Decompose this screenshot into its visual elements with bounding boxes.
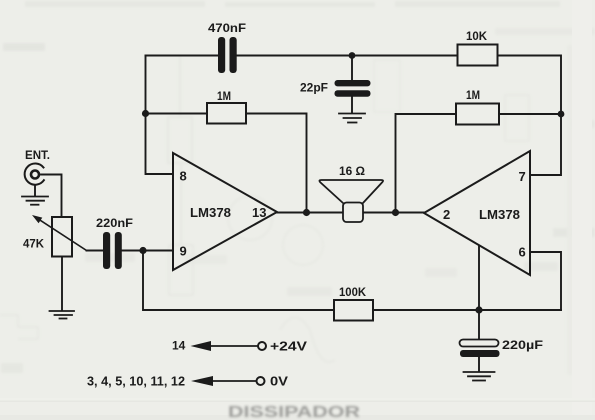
wire: 220nF to pin 9 <box>122 250 173 252</box>
svg-text:220nF: 220nF <box>96 218 133 230</box>
node: pin8 / 1M-left junction <box>142 110 149 117</box>
wire: 100K to right rail <box>373 309 561 311</box>
svg-text:DISSIPADOR: DISSIPADOR <box>228 404 361 420</box>
wire: 22pF drop <box>351 56 353 81</box>
node: 220uF junction <box>475 306 482 313</box>
pot wiper arrow <box>36 218 87 251</box>
svg-text:ENT.: ENT. <box>25 150 50 162</box>
node: pin9 / feedback <box>139 247 146 254</box>
capacitor 220uF electrolytic <box>460 340 499 347</box>
wire: jack ground stub <box>34 185 36 196</box>
svg-text:13: 13 <box>252 205 266 220</box>
capacitor 470nF <box>218 37 237 73</box>
svg-text:1M: 1M <box>466 88 480 102</box>
wire: top rail right segment <box>352 55 458 57</box>
wire: 1M-left to output bus <box>246 114 307 213</box>
svg-text:22pF: 22pF <box>300 83 328 95</box>
node: 22pF tap <box>349 52 356 59</box>
wire: output bus right <box>363 212 424 214</box>
ground: pot <box>50 311 75 319</box>
svg-text:0V: 0V <box>270 375 289 389</box>
node: bus / 1M-right <box>392 209 399 216</box>
svg-text:+24V: +24V <box>270 340 308 354</box>
svg-text:6: 6 <box>519 245 526 260</box>
svg-text:LM378: LM378 <box>190 205 231 220</box>
node: bus / 1M-left <box>303 209 310 216</box>
wire: top rail mid segment <box>237 55 352 57</box>
resistor 10K <box>458 45 498 66</box>
wire: top rail to right rail corner <box>498 56 562 176</box>
svg-text:100K: 100K <box>339 285 366 299</box>
svg-text:8: 8 <box>180 169 187 184</box>
svg-text:10K: 10K <box>466 29 487 43</box>
wire: 220uF to ground <box>478 357 480 372</box>
wire: jack to pot <box>41 175 62 218</box>
resistor 100K <box>334 300 373 321</box>
page edge light band <box>572 0 592 420</box>
wire: 1M-right to right rail <box>499 113 561 115</box>
svg-text:7: 7 <box>519 169 526 184</box>
svg-text:1M: 1M <box>217 89 231 103</box>
op-amp U2 LM378 right <box>424 151 530 275</box>
wire: 1M-left row left stub <box>146 113 208 115</box>
wire: top rail left segment <box>146 55 219 57</box>
svg-text:9: 9 <box>180 244 187 259</box>
svg-text:LM378: LM378 <box>479 207 520 222</box>
capacitor 22pF <box>335 80 371 97</box>
wire: hypotenuse tap down <box>478 246 480 311</box>
svg-text:220µF: 220µF <box>502 338 543 352</box>
op-amp U1 LM378 left <box>173 153 277 270</box>
svg-text:3, 4, 5, 10, 11, 12: 3, 4, 5, 10, 11, 12 <box>87 375 185 389</box>
wire: 1M-right row <box>396 114 457 213</box>
wire: wiper to 220nF <box>87 250 104 252</box>
node: right rail / 1M junction <box>558 111 565 118</box>
svg-text:16 Ω: 16 Ω <box>339 164 365 178</box>
ground: 22pF <box>339 114 365 123</box>
resistor 1M left <box>207 103 246 124</box>
wire: output bus left <box>277 212 343 214</box>
wire: 22pF to ground <box>351 97 353 113</box>
svg-text:470nF: 470nF <box>208 23 246 35</box>
svg-text:2: 2 <box>443 207 450 222</box>
potentiometer 47K <box>52 217 72 257</box>
wire: to 220uF <box>478 310 480 340</box>
resistor 1M right <box>456 104 499 125</box>
svg-text:47K: 47K <box>23 239 45 251</box>
wire: pin 6 to right rail down <box>530 252 561 310</box>
wire: pot bottom to ground <box>61 257 63 311</box>
svg-text:14: 14 <box>172 339 186 353</box>
speaker LS 16 ohm <box>319 180 383 203</box>
wire: feedback bottom run <box>143 251 334 311</box>
ground: input jack <box>22 197 48 205</box>
capacitor 220nF <box>103 232 122 269</box>
ground: 220uF <box>464 372 495 381</box>
wire: left rail down from top <box>146 56 174 175</box>
